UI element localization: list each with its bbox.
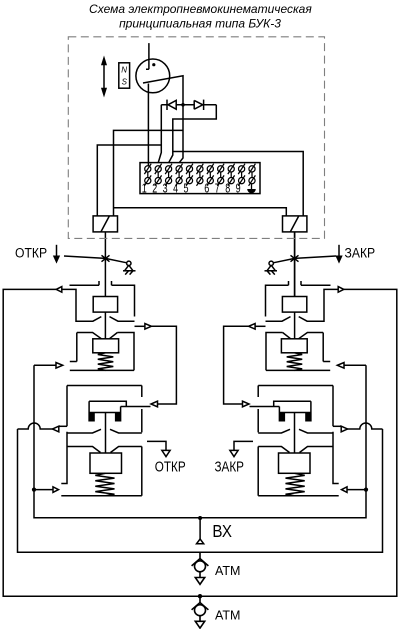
svg-text:1: 1 [142, 182, 147, 196]
svg-text:N: N [121, 66, 127, 75]
svg-text:7: 7 [215, 182, 220, 196]
svg-text:ОТКР: ОТКР [15, 245, 47, 261]
svg-text:принципиальная типа БУК-3: принципиальная типа БУК-3 [119, 17, 281, 31]
svg-text:ОТКР: ОТКР [155, 458, 186, 475]
svg-text:3: 3 [163, 182, 168, 196]
svg-text:ЗАКР: ЗАКР [345, 245, 376, 261]
svg-text:8: 8 [225, 182, 230, 196]
svg-text:6: 6 [204, 182, 209, 196]
svg-text:ЗАКР: ЗАКР [215, 458, 244, 475]
svg-text:Схема электропневмокинематичес: Схема электропневмокинематическая [89, 2, 312, 16]
svg-text:ВХ: ВХ [212, 521, 231, 542]
svg-text:АТМ: АТМ [215, 564, 240, 578]
svg-text:2: 2 [152, 182, 157, 196]
svg-text:S: S [122, 78, 128, 87]
svg-text:9: 9 [236, 182, 241, 196]
svg-text:АТМ: АТМ [215, 608, 240, 622]
svg-text:5: 5 [183, 182, 188, 196]
svg-text:4: 4 [173, 182, 178, 196]
